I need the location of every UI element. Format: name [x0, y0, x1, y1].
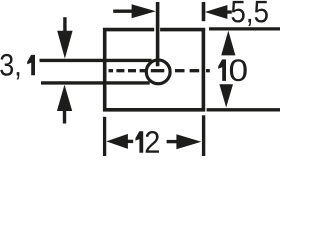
bottom edge extension line to right	[207, 108, 281, 111]
12 dimension right extension line	[202, 115, 205, 156]
body outline top edge left segment	[103, 28, 154, 32]
right edge extension line (top)	[202, 2, 206, 21]
down arrowhead (3,1)	[57, 31, 72, 59]
label 12	[135, 131, 143, 152]
label 3,1 hole diameter	[0, 54, 13, 76]
horizontal dashed centerline	[109, 69, 210, 72]
hole diameter lower reference line	[41, 81, 150, 84]
body outline bottom edge	[103, 108, 205, 112]
up arrowhead (3,1)	[57, 85, 72, 111]
12 dimension left arrow tail	[128, 140, 134, 143]
left-pointing arrowhead (5,5 right)	[205, 5, 228, 19]
up arrow tail (3,1 dimension)	[63, 110, 66, 124]
body outline right edge	[202, 28, 206, 111]
body outline (package, left edge)	[103, 28, 107, 111]
right-pointing arrowhead (5,5 left)	[132, 4, 156, 18]
top edge extension line to right	[209, 27, 281, 30]
label 5,5	[232, 1, 245, 23]
12 dimension left extension line	[103, 117, 106, 157]
right-pointing arrowhead (12 right)	[176, 134, 201, 149]
down arrow tail (3,1 dimension)	[63, 17, 66, 32]
5,5 dimension left tail	[113, 9, 133, 12]
body outline top edge right segment	[160, 28, 205, 32]
left-pointing arrowhead (12 left)	[106, 134, 128, 149]
label 10	[218, 59, 226, 81]
up arrowhead (10 top)	[221, 31, 235, 56]
hole diameter upper reference line	[40, 59, 152, 62]
12 dimension right arrow tail	[167, 140, 177, 143]
vertical centerline of hole	[156, 2, 160, 66]
hole circle	[146, 60, 170, 84]
down arrowhead (10 bottom)	[219, 84, 233, 107]
